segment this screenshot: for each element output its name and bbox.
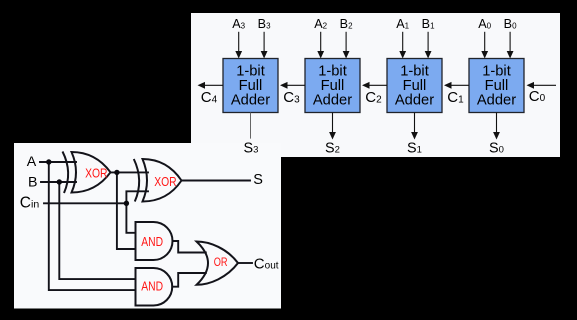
input arrow A2 (317, 32, 324, 59)
carry arrow C1 (444, 82, 469, 89)
svg-text:XOR: XOR (154, 174, 176, 189)
wire AND2 output to OR (172, 273, 206, 287)
svg-text:A: A (27, 154, 37, 170)
carry arrow C3 (280, 82, 305, 89)
input arrow A3 (235, 32, 242, 59)
carry arrow C4 (198, 82, 224, 89)
and gate AND1 (136, 222, 173, 260)
input arrow B2 (343, 32, 350, 59)
and gate AND2 (136, 268, 173, 306)
svg-text:AND: AND (141, 279, 163, 294)
junction dot A (46, 159, 51, 164)
carry arrow C2 (362, 82, 387, 89)
sum line S3 (no arrowhead) (250, 113, 252, 139)
wire XOR1 output to XOR2 (111, 171, 149, 173)
xor gate XOR1 (63, 152, 111, 194)
junction dot XOR1 output (114, 170, 119, 175)
svg-text:B: B (28, 175, 37, 191)
1-bit full adder box 3 (223, 59, 278, 113)
or gate OR1 (197, 242, 239, 285)
junction dot B (57, 179, 62, 184)
svg-text:Adder: Adder (477, 93, 516, 109)
wire Cin up to XOR2 (126, 191, 148, 203)
sum arrow S0 (493, 113, 500, 140)
input arrow A1 (399, 32, 406, 59)
1-bit full adder box 0 (469, 59, 524, 113)
wire Cin down to AND1 (126, 203, 135, 233)
wire AND1 output to OR (173, 241, 206, 253)
wire B vertical to AND2 (59, 182, 135, 279)
top panel (4-bit ripple-carry adder) (191, 13, 560, 157)
wire B input (41, 181, 76, 183)
sum arrow S1 (411, 113, 418, 140)
svg-text:XOR: XOR (85, 166, 107, 181)
1-bit full adder box 1 (387, 59, 442, 113)
svg-text:Adder: Adder (395, 93, 434, 109)
svg-text:Adder: Adder (231, 93, 270, 109)
junction dot Cin (124, 201, 129, 206)
svg-text:AND: AND (141, 234, 163, 249)
svg-text:Adder: Adder (313, 93, 352, 109)
input arrow A0 (481, 32, 488, 59)
wire XOR2 output S (182, 180, 251, 182)
bottom panel (full-adder gate schematic) (14, 143, 281, 309)
sum arrow S2 (329, 113, 336, 140)
wire A vertical to AND2 (49, 162, 136, 290)
input arrow B3 (261, 32, 268, 59)
xor gate XOR2 (134, 159, 182, 202)
svg-text:OR: OR (214, 255, 228, 269)
wire XOR1 output down to AND1 (117, 172, 136, 249)
input arrow B1 (425, 32, 432, 59)
svg-text:S: S (253, 172, 263, 188)
carry arrow C0 (527, 82, 557, 89)
wire OR output Cout (238, 262, 252, 264)
input arrow B0 (507, 32, 514, 59)
1-bit full adder box 2 (305, 59, 360, 113)
wire A input (40, 161, 76, 163)
wire Cin input (44, 202, 126, 204)
